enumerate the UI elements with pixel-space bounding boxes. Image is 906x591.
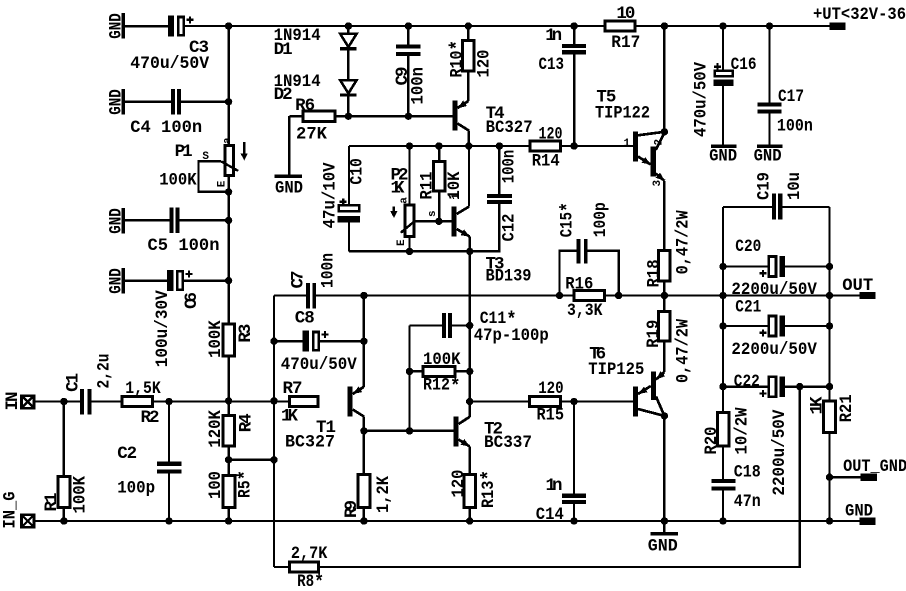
- resistor R8* 2,7K: [289, 544, 327, 591]
- svg-text:120K: 120K: [206, 410, 226, 448]
- svg-text:OUT_GND: OUT_GND: [843, 457, 906, 477]
- svg-text:100K: 100K: [206, 320, 226, 358]
- svg-text:R7: R7: [283, 379, 303, 399]
- resistor R21 1K: [808, 387, 857, 521]
- svg-text:BC327: BC327: [486, 118, 533, 138]
- wire right bracket x=829.5: [828, 207, 830, 387]
- diode D1 1N914: [274, 22, 357, 80]
- svg-text:R5*: R5*: [236, 470, 259, 498]
- terminal OUT: [842, 276, 875, 299]
- capacitor C15* 100p: [558, 202, 619, 295]
- node T1-collector junction: [360, 427, 367, 434]
- svg-text:R15: R15: [537, 406, 565, 426]
- node C5/left-rail junction: [225, 217, 232, 224]
- svg-text:100n: 100n: [777, 117, 813, 137]
- capacitor C10 47u/10V: [320, 146, 367, 251]
- svg-text:1n: 1n: [546, 476, 563, 496]
- svg-text:10u: 10u: [785, 172, 805, 200]
- svg-text:BC337: BC337: [484, 433, 532, 453]
- transistor T2 BC337 (NPN): [453, 417, 532, 454]
- svg-text:GND: GND: [106, 268, 126, 294]
- resistor R7 1K: [281, 379, 318, 426]
- svg-text:C8: C8: [295, 309, 315, 329]
- svg-text:OUT: OUT: [842, 276, 873, 296]
- svg-text:TIP122: TIP122: [595, 104, 650, 124]
- wire feedback bottom + riser x=800: [274, 387, 800, 567]
- svg-text:100n: 100n: [499, 150, 519, 184]
- supply terminal +UT: [813, 5, 906, 30]
- svg-text:R14: R14: [532, 152, 560, 172]
- resistor R1 100K: [42, 402, 91, 522]
- svg-text:C19: C19: [755, 172, 775, 200]
- node R4/R5 junction: [225, 456, 232, 463]
- node output/right-bracket junction: [826, 292, 833, 299]
- resistor R9 1,2K: [342, 431, 394, 521]
- svg-text:R1: R1: [42, 493, 62, 512]
- svg-text:C5 100n: C5 100n: [148, 236, 220, 256]
- node C13-bottom junction: [570, 142, 577, 149]
- transistor T3 BD139 (NPN): [451, 146, 532, 286]
- node R11-top junction: [435, 142, 442, 149]
- svg-text:2: 2: [654, 139, 666, 146]
- svg-text:120: 120: [449, 470, 469, 498]
- svg-text:BD139: BD139: [486, 266, 532, 286]
- svg-text:1: 1: [624, 138, 631, 150]
- node C8-right junction: [360, 338, 367, 345]
- svg-text:1,2K: 1,2K: [374, 476, 394, 513]
- resistor R5* 100: [206, 470, 259, 508]
- svg-text:0,47/2W: 0,47/2W: [674, 319, 694, 383]
- svg-text:0,47/2W: 0,47/2W: [674, 210, 694, 274]
- svg-text:3: 3: [652, 180, 664, 187]
- capacitor C9 100n: [393, 22, 429, 116]
- transistor T4 BC327 (PNP): [452, 101, 532, 147]
- transistor T6 TIP125 (PNP darlington): [588, 345, 668, 521]
- svg-text:100u/30V: 100u/30V: [153, 290, 173, 367]
- node R3/R4 input junction: [225, 397, 232, 404]
- transistor T5 TIP122 (NPN darlington): [595, 88, 668, 251]
- terminal IN_G: [1, 492, 35, 529]
- capacitor C18 47n: [712, 463, 761, 521]
- svg-text:GND: GND: [754, 147, 782, 167]
- resistor R11 10K: [418, 146, 465, 221]
- svg-text:100p: 100p: [591, 202, 611, 237]
- svg-text:s: s: [427, 210, 439, 217]
- svg-text:R2: R2: [141, 408, 160, 428]
- svg-text:47p-100p: 47p-100p: [474, 326, 549, 346]
- terminal GND (bottom right): [845, 502, 876, 525]
- svg-text:47u/10V: 47u/10V: [320, 162, 340, 228]
- svg-text:C12: C12: [499, 214, 519, 242]
- node C6/left-rail junction: [225, 277, 232, 284]
- capacitor C11* 47p-100p: [410, 309, 549, 346]
- svg-text:R19: R19: [644, 320, 664, 348]
- svg-text:a: a: [222, 137, 234, 144]
- wire input row: [34, 400, 289, 402]
- svg-text:GND: GND: [845, 502, 873, 522]
- capacitor C16 470u/50V: [691, 22, 756, 166]
- svg-text:R11: R11: [418, 172, 438, 200]
- capacitor C7 100n: [289, 253, 339, 308]
- svg-text:GND: GND: [106, 208, 126, 234]
- node D2/R6 junction: [345, 113, 352, 120]
- capacitor C5 100n: [125, 208, 229, 256]
- svg-text:C20: C20: [735, 237, 761, 257]
- wire bias bottom y=251.4: [349, 250, 470, 252]
- svg-text:C10: C10: [348, 158, 368, 185]
- resistor R17 10 (in top rail): [605, 4, 640, 53]
- node ground/R21: [826, 517, 833, 524]
- node ground/R5: [225, 517, 232, 524]
- svg-text:100K: 100K: [423, 350, 461, 370]
- svg-text:R9: R9: [342, 500, 362, 518]
- svg-text:2,2u: 2,2u: [95, 354, 115, 389]
- ground GND1 (C3): [106, 13, 168, 39]
- capacitor C13 1n: [539, 22, 586, 146]
- capacitor C17 100n: [754, 22, 813, 166]
- svg-text:GND: GND: [648, 537, 678, 557]
- wire ground rail: [34, 520, 860, 522]
- node output/left-bracket junction: [719, 292, 726, 299]
- svg-text:R17: R17: [611, 33, 640, 53]
- svg-text:100: 100: [206, 471, 226, 499]
- wire y=146 row: [349, 145, 633, 147]
- node P2-bottom junction: [406, 248, 413, 255]
- node top-rail / left rail: [225, 22, 232, 29]
- resistor R16 3,3K: [556, 275, 623, 322]
- capacitor C6 100u/30V: [125, 270, 229, 367]
- capacitor C8 470u/50V: [274, 309, 364, 376]
- capacitor C20 2200u/50V: [719, 237, 833, 300]
- svg-text:R4: R4: [237, 413, 257, 432]
- svg-text:C2: C2: [117, 444, 137, 464]
- svg-text:470u/50V: 470u/50V: [281, 355, 357, 375]
- svg-text:100n: 100n: [408, 67, 428, 105]
- svg-text:1K: 1K: [391, 178, 405, 198]
- svg-text:R6: R6: [295, 96, 315, 116]
- node C12-top junction: [496, 142, 503, 149]
- svg-text:C7: C7: [289, 271, 309, 289]
- svg-text:R13*: R13*: [479, 470, 502, 508]
- svg-text:1K: 1K: [281, 406, 298, 426]
- svg-text:100K: 100K: [159, 171, 197, 191]
- wire C7/C8 to T1 emitter x=363.9: [363, 296, 365, 387]
- node R2/C2 junction: [165, 398, 172, 405]
- capacitor C1 2,2u: [64, 354, 115, 415]
- svg-text:R20: R20: [702, 427, 722, 455]
- svg-text:3,3K: 3,3K: [567, 301, 603, 321]
- capacitor C21 2200u/50V: [719, 298, 833, 361]
- wire bias node y=116.2: [289, 115, 452, 117]
- svg-text:C18: C18: [734, 463, 761, 483]
- svg-text:C13: C13: [539, 55, 565, 75]
- svg-text:470u/50V: 470u/50V: [130, 54, 209, 74]
- resistor R14 120: [530, 124, 563, 171]
- wire top supply rail: [185, 25, 830, 27]
- resistor R3 100K: [206, 320, 256, 358]
- svg-text:C1: C1: [64, 373, 84, 392]
- svg-text:R16: R16: [565, 275, 593, 295]
- node ground/R1: [60, 517, 67, 524]
- wire left bracket x=723: [722, 207, 724, 387]
- svg-text:C15*: C15*: [558, 202, 581, 237]
- node ground/T6-collector: [661, 517, 668, 524]
- svg-text:C14: C14: [536, 505, 564, 525]
- svg-text:IN: IN: [3, 392, 23, 411]
- svg-text:GND: GND: [709, 147, 737, 167]
- resistor R4 120K: [206, 410, 257, 448]
- potentiometer P1 100K: [159, 137, 248, 196]
- svg-text:100n: 100n: [319, 253, 339, 288]
- svg-text:BC327: BC327: [285, 432, 335, 452]
- diode D2 1N914: [274, 72, 357, 116]
- svg-text:C22: C22: [734, 372, 760, 392]
- svg-text:GND: GND: [106, 89, 126, 115]
- wire feedback left riser x=274: [273, 296, 275, 568]
- svg-text:470u/50V: 470u/50V: [691, 62, 711, 137]
- node T3-emitter junction: [466, 248, 473, 255]
- svg-text:C4 100n: C4 100n: [130, 118, 202, 138]
- svg-text:a: a: [399, 197, 411, 204]
- ground GND3 (C5): [106, 208, 126, 234]
- capacitor C12 100n: [470, 146, 520, 251]
- wire VAS out row y=401.5: [466, 398, 633, 405]
- resistor R18 0,47/2W: [645, 210, 694, 299]
- svg-text:C21: C21: [735, 298, 761, 318]
- potentiometer P2 1K: [390, 146, 439, 251]
- resistor R15 120: [530, 379, 564, 426]
- svg-text:P1: P1: [175, 142, 193, 162]
- node ground/R9: [360, 517, 367, 524]
- svg-text:2200u/50V: 2200u/50V: [770, 409, 790, 495]
- svg-text:120: 120: [538, 379, 564, 399]
- svg-text:S: S: [202, 151, 209, 163]
- transistor T1 BC327 (PNP): [285, 386, 364, 452]
- node R12-riser/T2-base junction: [406, 427, 413, 434]
- svg-text:1n: 1n: [545, 26, 562, 46]
- svg-text:100p: 100p: [117, 479, 155, 499]
- ground GND4 (C6): [106, 268, 126, 294]
- svg-text:R21: R21: [837, 394, 857, 422]
- node ground/R13: [466, 517, 473, 524]
- svg-text:IN_G: IN_G: [1, 492, 21, 529]
- resistor R6 27K: [295, 96, 335, 145]
- wire T5 collector from rail: [661, 22, 668, 132]
- wire left vertical rail: [227, 26, 229, 521]
- svg-text:2,7K: 2,7K: [291, 544, 328, 564]
- svg-text:GND: GND: [106, 13, 126, 39]
- svg-text:10: 10: [616, 4, 635, 24]
- svg-text:C17: C17: [778, 87, 804, 107]
- svg-text:27K: 27K: [296, 124, 327, 144]
- ground (T6 collector): [648, 521, 678, 557]
- capacitor C3 470u/50V: [130, 16, 209, 74]
- svg-text:C6: C6: [182, 292, 202, 309]
- svg-text:GND: GND: [275, 178, 303, 198]
- wire T1 collector to T2 base y=430.9: [364, 430, 454, 432]
- capacitor C22 2200u/50V: [719, 372, 833, 496]
- resistor R12* 100K: [406, 350, 474, 399]
- svg-text:C16: C16: [731, 55, 757, 75]
- svg-text:+UT<32V-36: +UT<32V-36: [813, 5, 906, 25]
- svg-text:1K: 1K: [808, 396, 828, 414]
- svg-text:R8*: R8*: [297, 572, 324, 591]
- node IN/R1 junction: [60, 398, 67, 405]
- wire C11/R12 left riser x=409.5: [408, 326, 410, 431]
- svg-text:10/2W: 10/2W: [733, 407, 753, 454]
- svg-text:1,5K: 1,5K: [125, 379, 161, 399]
- node feedback/R4 junction: [270, 456, 277, 463]
- terminal OUT_GND: [826, 457, 906, 481]
- wire R4/R7 link y=459.8: [229, 459, 274, 461]
- node P2-top junction: [406, 142, 413, 149]
- svg-text:2200u/50V: 2200u/50V: [731, 340, 817, 360]
- capacitor C14 1n: [536, 402, 586, 526]
- node C7/T1-emitter junction: [360, 292, 367, 299]
- node ground/C14: [570, 517, 577, 524]
- wire P2 wiper to T3 base: [414, 220, 452, 222]
- svg-text:R10*: R10*: [448, 40, 471, 78]
- resistor R10* 120: [448, 22, 495, 101]
- node R11-bottom/T3-base junction: [435, 218, 442, 225]
- capacitor C19 10u: [723, 172, 830, 220]
- capacitor C2 100p: [117, 402, 181, 522]
- svg-text:E: E: [396, 239, 408, 246]
- svg-text:R3: R3: [236, 324, 256, 343]
- node T4-collector/T3-collector junction: [465, 142, 472, 149]
- svg-text:47n: 47n: [734, 492, 761, 512]
- resistor R19 0,47/2W: [644, 296, 694, 384]
- ground (R6): [275, 116, 304, 198]
- svg-text:TIP125: TIP125: [588, 360, 644, 380]
- node R7-left junction: [270, 397, 277, 404]
- node ground/C2: [165, 517, 172, 524]
- svg-text:D2: D2: [274, 85, 293, 105]
- svg-text:R18: R18: [645, 259, 665, 287]
- svg-text:120: 120: [475, 50, 495, 78]
- node C8-left junction: [270, 338, 277, 345]
- node C4/left-rail junction: [225, 98, 232, 105]
- svg-text:120: 120: [539, 124, 563, 144]
- svg-text:1: 1: [451, 193, 463, 200]
- wire mid row y=295.5: [274, 294, 860, 296]
- node ground/C18: [719, 517, 726, 524]
- node C9/T4-base junction: [405, 113, 412, 120]
- capacitor C4 100n: [125, 89, 229, 138]
- resistor R2 1,5K: [122, 379, 161, 428]
- svg-text:100K: 100K: [71, 476, 91, 514]
- resistor R13* 120: [449, 470, 502, 522]
- terminal IN: [3, 392, 34, 411]
- svg-text:E: E: [217, 180, 229, 187]
- svg-text:R12*: R12*: [423, 376, 461, 399]
- wire T3emitter/T2collector riser x=469.7: [469, 251, 471, 474]
- svg-text:D1: D1: [274, 40, 293, 60]
- resistor R20 10/2W: [702, 387, 752, 480]
- ground GND2 (C4): [106, 89, 126, 115]
